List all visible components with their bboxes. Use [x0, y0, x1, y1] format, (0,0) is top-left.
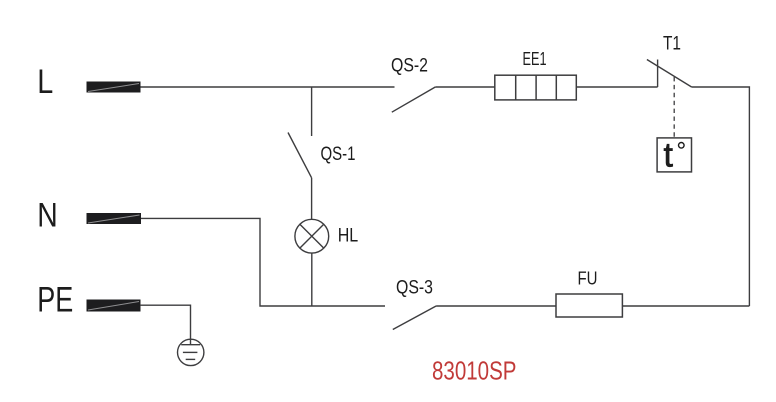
wire QS-1 to HL — [311, 178, 313, 220]
wire QS-1 top drop — [311, 87, 313, 136]
sensor t box — [657, 137, 691, 175]
terminal L — [87, 82, 141, 93]
heater EE1 — [495, 75, 577, 100]
svg-text:N: N — [37, 197, 58, 235]
thermostat T1 — [647, 60, 692, 88]
svg-text:T1: T1 — [663, 34, 681, 55]
svg-text:L: L — [37, 63, 53, 101]
svg-text:83010SP: 83010SP — [432, 358, 517, 386]
svg-text:HL: HL — [338, 225, 359, 247]
wire QS-2 to EE1 — [435, 86, 495, 88]
switch QS-2 blade — [392, 87, 436, 112]
wire EE1 to T1 — [576, 86, 657, 88]
ground symbol — [178, 339, 204, 365]
switch QS-1 blade — [288, 133, 312, 178]
svg-text:QS-2: QS-2 — [391, 55, 428, 77]
svg-text:EE1: EE1 — [523, 48, 547, 69]
terminal N — [87, 213, 142, 224]
fuse FU — [556, 294, 622, 317]
svg-text:PE: PE — [37, 281, 73, 320]
wire FU to right corner — [622, 305, 749, 307]
svg-text:FU: FU — [578, 267, 598, 288]
wire N to bottom run — [141, 218, 385, 306]
dashed link T1 to sensor — [673, 77, 675, 138]
wire L — [141, 86, 395, 88]
wire T1 to right side down — [692, 87, 750, 306]
wire QS-3 to FU — [436, 305, 556, 307]
switch QS-3 blade — [393, 306, 436, 330]
wire HL to bottom — [311, 253, 313, 306]
svg-text:t: t — [664, 137, 674, 175]
lamp HL — [295, 219, 329, 253]
svg-text:QS-1: QS-1 — [321, 144, 356, 165]
terminal PE — [87, 300, 141, 312]
wire PE to ground — [140, 305, 191, 345]
svg-text:QS-3: QS-3 — [396, 277, 433, 298]
